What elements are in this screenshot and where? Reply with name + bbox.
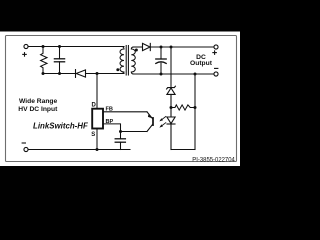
transformer T1 core	[125, 46, 127, 76]
node: output capacitor top junction	[160, 46, 163, 49]
svg-text:D: D	[92, 102, 97, 108]
svg-text:HV DC Input: HV DC Input	[18, 106, 58, 113]
figure border frame	[6, 36, 237, 162]
wire: source pin lead	[96, 129, 98, 150]
clamp capacitor	[54, 47, 64, 74]
wire: right vertical branch to output - rail	[194, 74, 196, 150]
wire: output + rail	[150, 46, 214, 48]
node: output capacitor bottom junction	[160, 73, 163, 76]
input + terminal	[24, 44, 28, 48]
node: zener branch top junction	[170, 46, 173, 49]
label: output + polarity sign	[212, 50, 217, 55]
wire: LED return bottom	[171, 149, 195, 151]
node: clamp resistor bottom junction	[42, 72, 45, 75]
output - terminal	[214, 72, 218, 76]
wire: BP node to opto emitter	[121, 131, 148, 133]
svg-text:PI-3855-022704: PI-3855-022704	[192, 157, 235, 164]
wire: zener branch upper	[170, 47, 172, 87]
feedback bias resistor (zigzag)	[171, 105, 195, 110]
wire: primary return rail	[28, 149, 130, 151]
clamp resistor (zigzag)	[41, 47, 47, 74]
label: output - polarity sign	[214, 67, 218, 69]
svg-text:BP: BP	[106, 119, 114, 125]
wire: drain lead to IC	[96, 74, 98, 109]
svg-text:Output: Output	[190, 60, 213, 67]
svg-text:Wide Range: Wide Range	[19, 98, 57, 105]
node: drain junction	[96, 72, 99, 75]
wire: output - rail	[133, 73, 214, 75]
wire: clamp node to blocking diode	[43, 73, 75, 75]
output + terminal	[214, 45, 218, 49]
primary phase dot	[116, 68, 119, 71]
bottom black letterbox band	[0, 166, 240, 200]
wire: secondary top to output rectifier	[133, 46, 142, 48]
node: clamp resistor top junction	[42, 45, 45, 48]
svg-text:LinkSwitch-HF: LinkSwitch-HF	[33, 121, 88, 130]
zener diode (cathode up)	[167, 86, 176, 107]
BP bypass capacitor	[115, 132, 125, 150]
transformer T1 primary winding	[120, 47, 124, 74]
node: clamp capacitor top junction	[58, 45, 61, 48]
top black letterbox band	[0, 0, 240, 32]
output rectifier diode	[143, 43, 151, 50]
clamp blocking diode (cathode left)	[76, 70, 86, 78]
wire: diode to primary winding bottom	[86, 73, 125, 75]
label: input - polarity sign	[22, 142, 26, 144]
input - terminal	[24, 147, 28, 151]
optocoupler phototransistor	[147, 112, 153, 132]
label: input + polarity sign	[22, 52, 27, 57]
node: feedback network right-branch junction	[194, 73, 197, 76]
output capacitor	[156, 47, 166, 74]
svg-text:S: S	[91, 132, 95, 138]
node: source rail junction	[96, 148, 99, 151]
wire: top input rail	[28, 46, 124, 48]
wire: BP pin down-jog	[103, 124, 120, 132]
optocoupler light arrows	[159, 117, 165, 128]
node: resistor right junction	[194, 106, 197, 109]
IC U1 LinkSwitch-HF package box	[92, 109, 103, 129]
secondary phase dot	[135, 49, 138, 52]
transformer T1 secondary winding	[131, 47, 135, 74]
optocoupler LED (pointing down)	[167, 108, 175, 150]
node: zener / resistor / LED junction	[170, 106, 173, 109]
node: BP node junction	[119, 130, 122, 133]
svg-text:FB: FB	[106, 107, 113, 113]
node: clamp capacitor bottom junction	[58, 72, 61, 75]
wire: FB pin to opto collector	[103, 111, 147, 113]
